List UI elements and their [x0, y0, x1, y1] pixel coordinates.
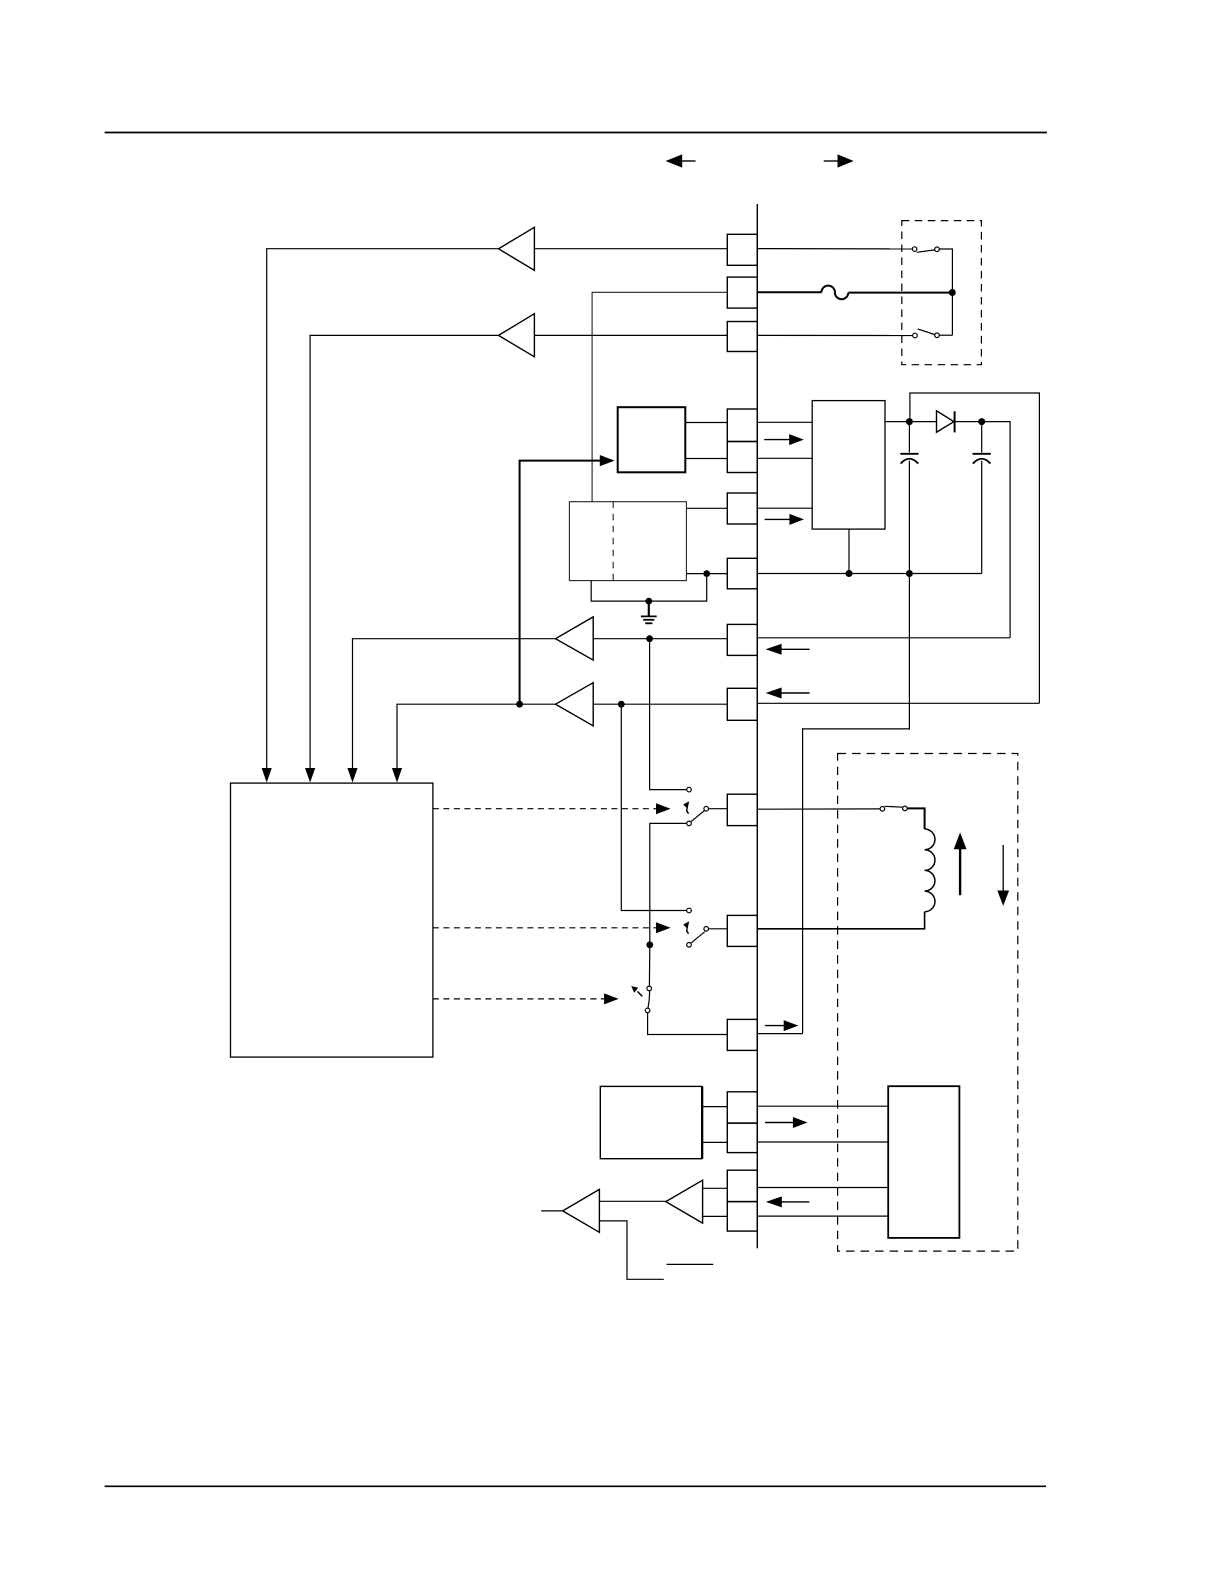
wire SW1 throw b down to SW2 throw b	[650, 823, 687, 944]
wire pad P1 to hook switch	[757, 248, 912, 250]
terminal pad P13	[727, 1092, 757, 1123]
terminal pad P4	[727, 409, 757, 442]
arrowhead into MCU pin 3	[347, 768, 357, 783]
annotation arrow into regulator bottom	[765, 514, 804, 525]
junction U4 output at x621	[618, 701, 625, 708]
page header rule	[105, 132, 1047, 134]
wire buffer U1 output to pad P1	[534, 248, 727, 250]
annotation arrow up (ring current)	[954, 832, 967, 895]
wire buffer U6 to pad P15	[703, 1187, 728, 1189]
hook switch SW-A blade	[917, 250, 935, 252]
wire block A out1 to pad P4	[685, 422, 727, 424]
wire block C ground side to pad P7	[686, 573, 727, 575]
ringer switch contact b	[903, 806, 908, 811]
wire pad P6 to regulator in3	[757, 507, 812, 509]
hook switch SW-B contact a	[913, 333, 918, 338]
wire regulator output to diode	[885, 421, 936, 423]
block D (speech network)	[600, 1086, 701, 1158]
annotation arrow into pad P9	[766, 688, 810, 699]
terminal pad P10	[727, 794, 757, 825]
annotation arrow into pad P8	[766, 644, 810, 655]
dashed control line MCU to SW2	[433, 927, 657, 929]
page footer rule	[105, 1485, 1046, 1487]
wire switch to ringer coil top	[907, 808, 924, 829]
wire buffer U4 output to pad P9	[593, 703, 727, 705]
ringer switch blade	[885, 805, 903, 808]
wire buffer U6 to pad P16	[703, 1215, 728, 1217]
dashed control line MCU to SW1	[433, 808, 657, 810]
actuation arrow SW1	[683, 801, 689, 813]
wire pad P12 to ringer return line	[757, 1033, 802, 1035]
junction VCC node	[906, 418, 913, 425]
block D right edge heavy	[701, 1086, 703, 1158]
wire buffer U6 input from buffer U7	[599, 1200, 665, 1202]
wire diode cathode to output corner	[955, 422, 1011, 638]
block E (handset)	[888, 1086, 959, 1238]
annotation arrow right (toward line)	[824, 154, 854, 167]
block A (ring detector)	[618, 407, 686, 472]
wire control into block A from node below	[520, 461, 601, 705]
annotation arrow down (return current)	[997, 845, 1009, 906]
wire junction down to SW3	[648, 945, 650, 986]
terminal pad P12	[727, 1019, 757, 1050]
arrowhead into MCU pin 1	[262, 768, 272, 783]
wire buffer U1 input run to MCU	[267, 249, 499, 769]
junction tip/ring common	[949, 289, 956, 296]
hook switch SW-A contact a	[912, 247, 917, 252]
wire buffer U2 output to pad P3	[534, 334, 727, 336]
terminal pad P11	[727, 915, 757, 946]
terminal pad P15	[727, 1170, 757, 1201]
terminal pad P16	[727, 1202, 757, 1232]
junction U4 input at x519	[516, 701, 523, 708]
junction at ground stub	[645, 598, 652, 605]
buffer U2	[499, 314, 535, 357]
wire block D out2 to pad P14	[702, 1141, 727, 1143]
wire buffer U4 input run to MCU	[397, 704, 556, 769]
terminal pad P1	[727, 234, 757, 265]
terminal pad P5	[727, 442, 757, 473]
wire pad P9 to VCC rail	[757, 702, 1039, 704]
wire buffer U7 input stub	[541, 1210, 563, 1212]
annotation arrow left (toward device)	[666, 154, 696, 167]
junction SW2 throw b	[646, 941, 653, 948]
buffer U3	[556, 617, 594, 660]
terminal pad P2	[727, 277, 757, 308]
ringer coil L1	[925, 829, 935, 912]
hook switch SW-A contact b	[935, 247, 940, 252]
buffer U6	[666, 1180, 703, 1223]
wire SW3 to pad P12	[648, 1013, 728, 1035]
SW2 throw contact a	[687, 908, 692, 913]
SW3 contact bottom	[645, 1008, 650, 1013]
block B (voltage regulator)	[812, 401, 885, 529]
wire buffer U3 output to pad P8	[593, 638, 727, 640]
arrowhead into block A	[600, 455, 615, 466]
hook switch SW-B contact b	[935, 333, 940, 338]
SW2 common contact	[704, 927, 709, 932]
ground rail from pad P7	[757, 573, 981, 575]
dashed enclosure: ringer assembly	[838, 754, 1018, 1252]
wire pad P4 to regulator in1	[757, 421, 812, 423]
wire block C bottom return loop	[591, 574, 707, 602]
hook switch SW-B blade (open)	[918, 329, 935, 335]
junction on U3 output	[646, 635, 653, 642]
wire pad P10 to ringer switch	[757, 808, 880, 810]
arrowhead control SW2	[656, 922, 671, 933]
wire buffer U7 lower output run	[599, 1221, 663, 1279]
wire SW2 common to pad P11	[709, 928, 728, 930]
block C (line voltage monitor)	[569, 502, 686, 581]
terminal pad P8	[727, 624, 757, 655]
wire pad P13 to handset block	[757, 1105, 888, 1107]
annotation arrow from handset	[766, 1196, 810, 1207]
SW1 common contact	[704, 806, 709, 811]
SW2 throw contact b	[687, 943, 692, 948]
wire pad P3 to hook switch B	[757, 334, 912, 336]
SW3 contact top	[647, 986, 652, 991]
arrowhead into MCU pin 2	[305, 768, 315, 783]
junction C1 ground	[906, 570, 913, 577]
SW1 throw contact a	[687, 787, 692, 792]
junction on block C ground wire	[703, 570, 710, 577]
MCU block U5	[231, 783, 433, 1057]
reference stub line	[667, 1263, 714, 1265]
wire pad P8 to diode output rail	[757, 637, 1010, 639]
terminal pad P14	[727, 1123, 757, 1153]
junction regulator ground	[846, 570, 853, 577]
diode D1	[937, 411, 955, 433]
fuse F1 (thermal protector)	[822, 286, 849, 300]
capacitor C2	[973, 422, 991, 574]
wire buffer U2 input run to MCU	[310, 335, 498, 769]
wire block A out2 to pad P5	[685, 458, 727, 460]
SW1 blade	[691, 810, 705, 821]
capacitor C1	[900, 422, 918, 574]
junction diode cathode node	[978, 418, 985, 425]
wire node U4 down to SW2 throw a	[621, 704, 686, 910]
SW1 throw contact b	[687, 821, 692, 826]
actuation arrow SW2	[683, 921, 689, 933]
wire pad P2 to fuse (line feed)	[757, 291, 821, 293]
wire SW-A to common node	[939, 249, 952, 335]
buffer U4	[556, 683, 594, 726]
SW2 blade	[691, 932, 705, 943]
wire ringer coil bottom to pad P11	[757, 912, 924, 929]
terminal pad P3	[727, 322, 757, 352]
wire SW1 common to pad P10	[709, 808, 728, 810]
wire node U3 down to switch SW1 throw a	[650, 639, 687, 790]
terminal pad P9	[727, 688, 757, 720]
wire SW-B to common node	[939, 334, 952, 336]
arrowhead into MCU pin 4	[392, 768, 402, 783]
wire block D out1 to pad P13	[702, 1106, 727, 1108]
wire regulator ground pin	[848, 529, 850, 573]
wire ground rail feed down to ringer return	[803, 574, 910, 1034]
buffer U7	[563, 1189, 600, 1232]
wire pad P2 sense line down to line-voltage monitor	[592, 292, 727, 501]
wire pad P15 to handset block	[757, 1187, 888, 1189]
arrowhead control SW1	[656, 803, 671, 814]
terminal pad P7	[727, 558, 757, 589]
annotation arrow to handset	[765, 1117, 808, 1128]
terminal pad P6	[727, 493, 757, 524]
wire pad P14 to handset block	[757, 1141, 888, 1143]
annotation arrow into regulator top	[764, 434, 804, 445]
wire fuse to common junction	[848, 292, 952, 294]
wire pad P16 to handset block	[757, 1215, 888, 1217]
internal dashed divider of block C	[612, 502, 614, 581]
arrowhead control SW3	[604, 993, 619, 1004]
actuation arrow SW3	[631, 986, 642, 996]
telephone line bus	[756, 204, 758, 1248]
ground symbol	[641, 601, 657, 623]
SW3 blade	[648, 991, 650, 1009]
wire VCC top rail	[910, 393, 1040, 703]
wire pad P5 to regulator in2	[757, 457, 812, 459]
wire block C out to pad P6	[686, 507, 727, 509]
wire buffer U3 input run to MCU	[353, 639, 556, 769]
dashed control line MCU to SW3	[433, 998, 604, 1000]
ringer switch contact a	[880, 807, 885, 812]
annotation arrow out of pad P12	[765, 1020, 798, 1031]
dashed enclosure: hook switch assembly	[902, 221, 982, 365]
buffer U1	[499, 227, 535, 270]
